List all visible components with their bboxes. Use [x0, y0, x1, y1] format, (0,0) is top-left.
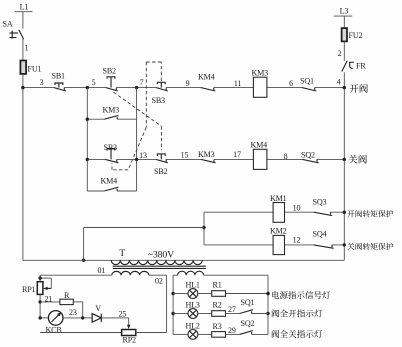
resistor R [40, 291, 83, 318]
junction dots branch1 [86, 118, 89, 121]
svg-text:V: V [95, 304, 101, 313]
limit switch SQ4 [313, 230, 334, 249]
svg-text:13: 13 [139, 151, 147, 160]
svg-text:KM4: KM4 [198, 73, 215, 82]
wire rung3-4 left vertical [202, 212, 205, 245]
svg-text:6: 6 [289, 79, 293, 88]
wire KM4 branch [87, 190, 136, 192]
label 10 [293, 204, 301, 213]
wire node 25 to RP2 wiper [101, 309, 130, 329]
wire node 2 [338, 41, 345, 61]
node 4 [337, 78, 346, 90]
node rung3 right [343, 211, 346, 214]
svg-text:SQ1: SQ1 [241, 298, 255, 307]
label kai-fa (open valve) [350, 84, 368, 93]
wire node 23 [63, 308, 92, 320]
label 6 [289, 79, 293, 88]
label power indicator lamp [266, 291, 330, 299]
svg-text:11: 11 [234, 79, 242, 88]
svg-text:HL1: HL1 [186, 280, 200, 289]
svg-text:2: 2 [338, 49, 342, 58]
svg-text:SQ1: SQ1 [300, 77, 314, 86]
svg-text:12: 12 [293, 236, 301, 245]
vertical wire node7 [136, 88, 138, 191]
wire 01 to RP1 [40, 275, 112, 282]
node rung2 right [343, 158, 346, 161]
label 9 [186, 79, 190, 88]
label 15 [181, 151, 189, 160]
svg-text:KM4: KM4 [101, 177, 118, 186]
node 3 [21, 78, 43, 89]
svg-text:KM3: KM3 [198, 150, 215, 159]
potentiometer RP1 [22, 276, 51, 294]
label valve-fully-open indicator lamp [272, 309, 322, 317]
svg-text:SB3: SB3 [152, 96, 166, 105]
coil KM4 [251, 141, 268, 170]
contact KM3 (self-hold NO) [103, 106, 120, 120]
svg-text:KM3: KM3 [252, 69, 269, 78]
svg-text:R2: R2 [213, 300, 222, 309]
svg-text:RP1: RP1 [22, 285, 36, 294]
label 17 [233, 150, 241, 159]
svg-text:SQ3: SQ3 [313, 198, 327, 207]
svg-text:02: 02 [155, 277, 163, 286]
svg-text:~380V: ~380V [148, 250, 174, 261]
svg-text:SQ2: SQ2 [241, 319, 255, 328]
switch SA [3, 20, 24, 40]
label 8 [284, 152, 288, 161]
svg-text:HL2: HL2 [186, 321, 200, 330]
transformer T primary winding [111, 248, 202, 264]
lamp HL3 [173, 300, 200, 318]
wire L1 down to SA [22, 12, 24, 29]
limit switch SQ1 [300, 77, 316, 92]
svg-text:SB2: SB2 [103, 67, 117, 76]
coil KM1 [270, 194, 287, 222]
limit switch SQ2 (lamp row) [228, 319, 268, 335]
resistor R3 [198, 322, 240, 337]
pushbutton SB2 (NC) [103, 67, 118, 92]
wire rung 4 [204, 244, 344, 246]
svg-text:25: 25 [119, 309, 127, 318]
svg-text:KM3: KM3 [103, 106, 120, 115]
coil KM3 [252, 69, 269, 98]
mechanical link SB2 (dashed) [114, 92, 162, 150]
lamp HL1 [173, 280, 200, 298]
meter KCB [38, 311, 63, 335]
svg-text:5: 5 [92, 78, 96, 87]
svg-text:FU2: FU2 [349, 31, 363, 40]
svg-text:SB1: SB1 [52, 72, 66, 81]
lamp HL2 [173, 321, 200, 339]
node rung4 right [343, 243, 346, 246]
wire 02 vertical [166, 275, 168, 332]
node 5 [86, 78, 96, 89]
svg-text:HL3: HL3 [186, 300, 200, 309]
svg-text:FR: FR [356, 62, 366, 71]
wire cross feeder [82, 228, 204, 262]
wire primary feeder [23, 259, 344, 261]
wire KM3 branch [87, 118, 136, 120]
svg-text:1: 1 [25, 44, 29, 53]
node 13 [135, 151, 147, 161]
svg-text:SB3: SB3 [104, 143, 118, 152]
svg-text:KM4: KM4 [251, 141, 268, 150]
svg-text:T: T [119, 248, 125, 259]
svg-text:SQ4: SQ4 [313, 230, 327, 239]
limit switch SQ1 (lamp row) [228, 298, 268, 314]
fuse FU2 [342, 28, 363, 41]
junction node rung2 left [86, 158, 89, 161]
svg-text:FU1: FU1 [28, 65, 42, 74]
svg-text:4: 4 [337, 78, 341, 87]
svg-text:SB2: SB2 [154, 167, 168, 176]
svg-text:17: 17 [233, 150, 241, 159]
svg-text:KCB: KCB [46, 326, 62, 335]
label valve-fully-closed indicator lamp [272, 330, 322, 338]
contact KM4 (self-hold NO) [101, 177, 119, 192]
svg-text:R: R [64, 291, 70, 300]
svg-text:27: 27 [228, 305, 236, 314]
svg-text:RP2: RP2 [123, 336, 137, 345]
wire rung 2 [87, 158, 344, 160]
svg-text:15: 15 [181, 151, 189, 160]
wire L3 to FU2 [343, 16, 345, 28]
svg-text:01: 01 [98, 266, 106, 275]
resistor R2 [198, 300, 240, 316]
node 7 [135, 78, 144, 89]
svg-text:L3: L3 [340, 7, 349, 16]
wire right rail [343, 72, 345, 260]
node L3 terminal [334, 7, 352, 16]
svg-text:KM2: KM2 [270, 227, 287, 236]
wire left rail [22, 74, 24, 260]
pushbutton SB1 (NC) [52, 72, 66, 92]
transformer secondary 01-02 [98, 266, 167, 286]
label guan-fa (close valve) [349, 155, 367, 164]
wire node 1 [23, 39, 29, 61]
potentiometer RP2 [40, 330, 167, 345]
wire rung 3 [204, 211, 344, 213]
limit switch SQ2 [301, 151, 319, 163]
node L1 terminal [14, 3, 32, 12]
mechanical link SB3 (dashed) [112, 62, 161, 170]
thermal overload contact FR [342, 61, 367, 72]
svg-text:8: 8 [284, 152, 288, 161]
resistor R1 [198, 280, 268, 296]
label open-valve torque protection [347, 210, 393, 217]
contact KM4 (NC interlock) [198, 73, 215, 92]
svg-text:R1: R1 [213, 280, 222, 289]
label close-valve torque protection [347, 243, 393, 250]
wire lamp panel right rail [266, 275, 269, 334]
diode V [92, 304, 101, 322]
svg-text:3: 3 [40, 78, 44, 87]
limit switch SQ3 [313, 198, 333, 216]
pushbutton SB3 (NO contact) [152, 82, 168, 105]
svg-text:KM1: KM1 [270, 194, 287, 203]
fuse FU1 [20, 61, 41, 74]
svg-text:7: 7 [140, 78, 144, 87]
vertical wire node5 [86, 88, 88, 191]
pushbutton SB3 (NC) [104, 143, 119, 163]
label 11 [234, 79, 242, 88]
label 12 [293, 236, 301, 245]
contact KM3 (NC interlock) [198, 150, 216, 163]
coil KM2 [270, 227, 287, 255]
svg-text:9: 9 [186, 79, 190, 88]
transformer core [113, 266, 206, 268]
svg-text:L1: L1 [20, 3, 29, 12]
svg-text:SQ2: SQ2 [301, 151, 315, 160]
wire RP1 to node 21 [38, 294, 52, 318]
pushbutton SB2 (NO contact) [154, 154, 168, 176]
wire rung 1 [23, 87, 344, 89]
transformer lamp secondary [173, 271, 268, 275]
svg-text:29: 29 [228, 326, 236, 335]
svg-text:23: 23 [69, 308, 77, 317]
svg-text:R3: R3 [213, 322, 222, 331]
svg-text:10: 10 [293, 204, 301, 213]
wire lamp panel left rail [171, 275, 174, 334]
svg-text:SA: SA [3, 20, 13, 29]
